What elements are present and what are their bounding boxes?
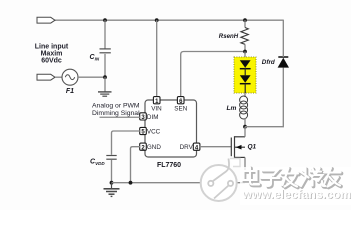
wire Q1 drain up	[244, 127, 246, 137]
wire rail to Cin	[104, 20, 106, 48]
wire SEN pin6 up and right	[181, 52, 245, 97]
node C dot	[243, 125, 247, 129]
ground G1	[98, 92, 112, 96]
node dot bottom rail left	[110, 181, 114, 185]
capacitor Cin	[100, 49, 111, 53]
node dot RsenH rail	[243, 18, 247, 22]
wire node C to Dfrd anode	[245, 68, 283, 127]
label Line input Maxim 60Vdc	[35, 43, 69, 64]
wire node A down	[104, 77, 106, 92]
svg-text:VCC: VCC	[147, 129, 161, 136]
wire Dfrd cathode to top rail	[282, 20, 284, 57]
node dot pin2 rail	[129, 181, 133, 185]
wire DIM signal to pin3	[100, 116, 141, 118]
svg-text:DRV: DRV	[180, 144, 194, 151]
capacitor Cvdd	[106, 156, 116, 160]
wire top rail	[55, 19, 283, 21]
diode Dfrd	[278, 57, 289, 68]
wire node B to LED box	[244, 52, 246, 61]
wire Cin to node A	[104, 54, 106, 77]
svg-text:FL7760: FL7760	[157, 162, 181, 169]
svg-text:RsenH: RsenH	[219, 33, 239, 40]
IC U1 FL7760 body	[145, 100, 197, 157]
svg-text:Dfrd: Dfrd	[262, 59, 275, 66]
wire rail to VIN pin1	[156, 20, 158, 97]
svg-text:Analog or PWM: Analog or PWM	[92, 103, 140, 110]
svg-text:DIM: DIM	[147, 114, 159, 121]
wire rail to RsenH	[244, 20, 246, 27]
Q1 body arrow	[236, 145, 242, 150]
wire J2 to fuse	[55, 76, 62, 78]
wire Cvdd to bottom rail	[111, 160, 113, 183]
wire DRV pin4 to gate	[200, 146, 232, 148]
node A dot	[103, 75, 107, 79]
transistor Q1	[231, 136, 245, 158]
pin 2 box	[140, 143, 147, 151]
wire Lm to node C	[244, 118, 246, 127]
wire Q1 source down	[244, 157, 246, 182]
svg-text:Lm: Lm	[227, 105, 237, 112]
pin 5 box	[140, 127, 147, 135]
watermark backing	[240, 167, 351, 205]
wire bottom rail	[112, 182, 246, 184]
pin 1 box	[153, 97, 160, 105]
wire fuse to node A	[78, 76, 105, 78]
svg-text:Dimming Signal: Dimming Signal	[92, 110, 140, 117]
svg-text:www.elecfans.com: www.elecfans.com	[242, 187, 351, 201]
LED highlight box	[234, 57, 256, 93]
inductor Lm	[240, 96, 248, 119]
node dot VIN rail	[155, 18, 159, 22]
wire VCC pin5 to Cvdd	[112, 131, 141, 155]
svg-text:Maxim: Maxim	[41, 50, 63, 57]
ground G2	[104, 183, 120, 197]
svg-text:VIN: VIN	[151, 105, 162, 112]
svg-text:Q1: Q1	[248, 144, 257, 151]
connector J2 (line input bottom)	[37, 74, 55, 80]
LED D2	[240, 75, 251, 93]
svg-text:Line input: Line input	[35, 43, 69, 50]
connector J1 (line input top)	[37, 17, 55, 23]
label Analog or PWM Dimming Signal	[92, 103, 140, 117]
wire GND pin2 to bottom rail	[131, 147, 141, 183]
fuse F1	[62, 69, 78, 85]
wire RsenH to node B	[244, 44, 246, 51]
wire LED box to Lm	[244, 93, 246, 97]
node B dot	[243, 50, 247, 54]
node dot top rail / Cin	[103, 18, 107, 22]
pin 4 box	[193, 143, 200, 151]
svg-text:F1: F1	[66, 88, 74, 95]
watermark logo circle	[201, 159, 240, 202]
resistor RsenH	[241, 28, 248, 45]
pin 6 box	[177, 97, 184, 105]
svg-text:GND: GND	[147, 144, 161, 151]
svg-text:SEN: SEN	[174, 105, 187, 112]
LED D1	[240, 60, 251, 75]
pin 3 box	[140, 113, 147, 121]
svg-text:60Vdc: 60Vdc	[41, 58, 62, 65]
